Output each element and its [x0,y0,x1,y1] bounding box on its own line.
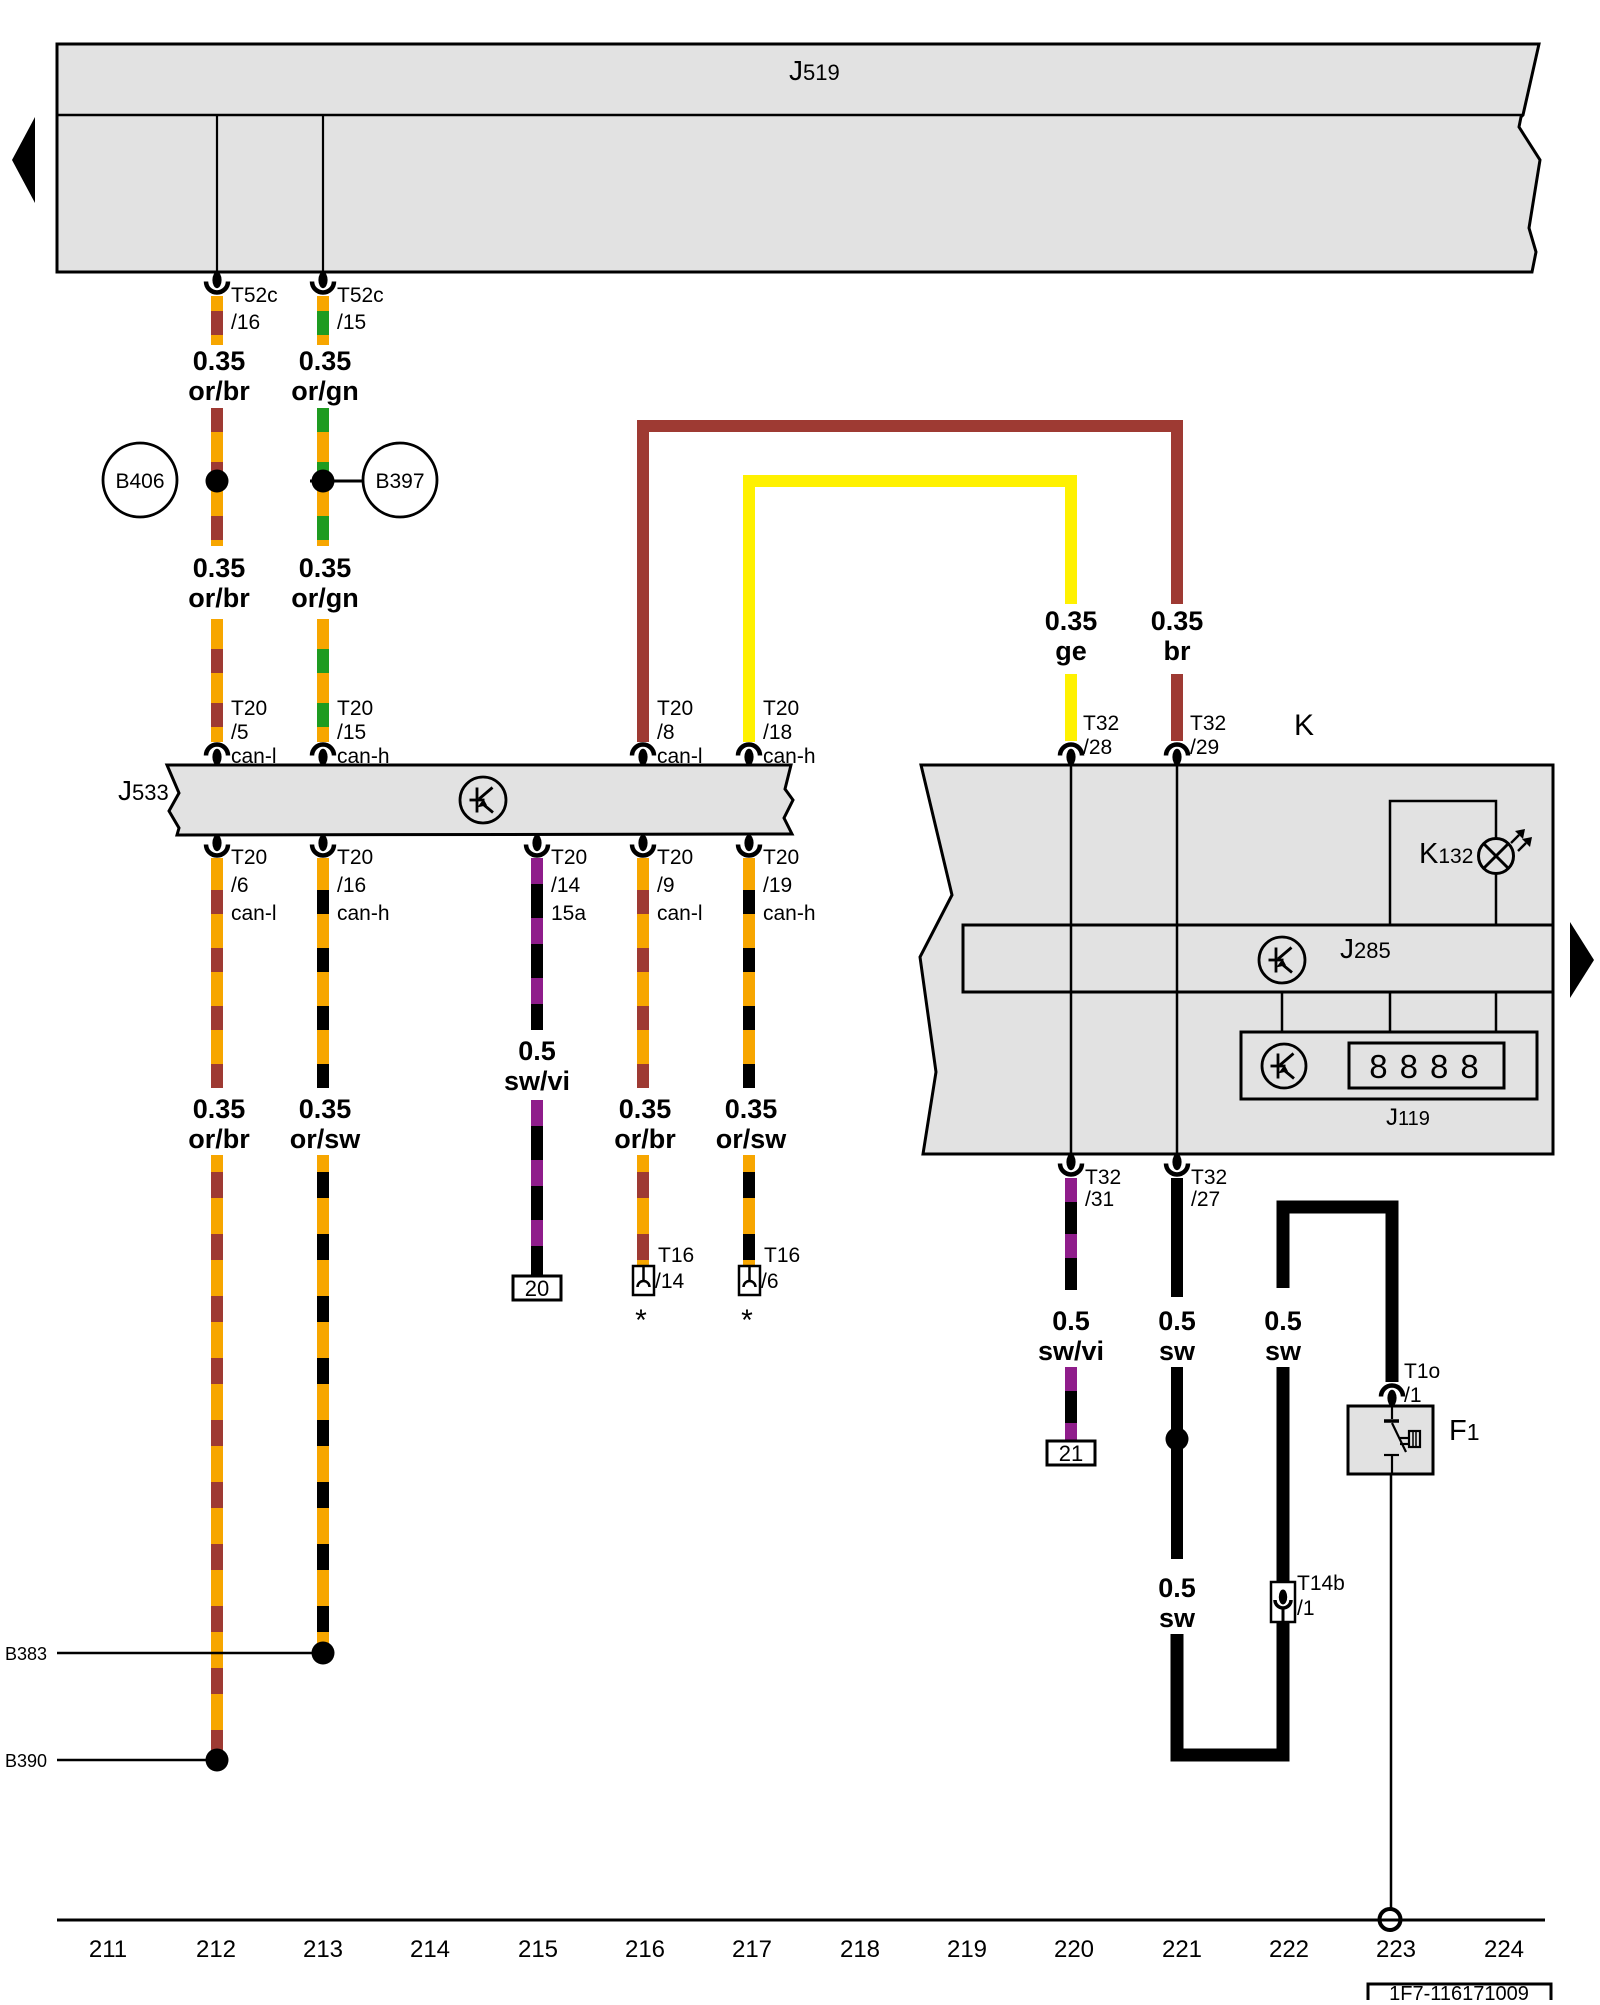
control unit J285 in dash panel insert [963,925,1553,992]
svg-text:sw: sw [1159,1603,1196,1633]
wire sw/vi below J533 track 215 [531,858,543,1030]
wire stub inside J519 track 213 [322,115,324,272]
svg-text:218: 218 [840,1936,880,1963]
svg-text:/29: /29 [1190,736,1219,759]
svg-text:or/br: or/br [188,583,250,613]
label 0.35 or/br lower track 212 [188,1094,250,1154]
svg-text:215: 215 [518,1936,558,1963]
wire sw/vi to ground 20 track 215 [531,1100,543,1276]
svg-text:T20: T20 [337,846,373,869]
svg-text:can-l: can-l [231,745,277,768]
svg-text:220: 220 [1054,1936,1094,1963]
connector T52c/15 at J519 [312,272,334,293]
svg-text:or/br: or/br [188,1124,250,1154]
svg-text:T52c: T52c [337,284,384,307]
label 0.5 sw track 222 [1264,1306,1302,1366]
wire or/sw long segment to B383 track 213 [317,1155,329,1653]
svg-text:/28: /28 [1083,736,1112,759]
svg-text:T16: T16 [658,1244,694,1267]
svg-text:can-h: can-h [763,902,816,925]
electronics symbol in J119 [1262,1044,1306,1088]
junction dot on sw wire track 221 [1166,1428,1189,1451]
svg-text:can-h: can-h [337,745,390,768]
svg-text:15a: 15a [551,902,586,925]
svg-text:sw: sw [1265,1336,1302,1366]
svg-text:0.35: 0.35 [1151,606,1204,636]
wire sw bottom U-link track 221-222 [1177,1621,1283,1755]
svg-text:20: 20 [525,1276,549,1301]
inline connector T16/6 [739,1266,760,1295]
continuation arrow left [12,117,35,203]
wire ge lower segment to T32/28 [1065,674,1077,741]
svg-text:214: 214 [410,1936,450,1963]
svg-text:0.5: 0.5 [1158,1573,1196,1603]
connector T20/8 at J533 top [632,745,654,766]
svg-text:can-l: can-l [231,902,277,925]
wire sw/vi to ground 21 track 220 [1065,1367,1077,1441]
K132 indicator lamp circuit wiring [1390,801,1496,925]
svg-text:/31: /31 [1085,1188,1114,1211]
internal line track 221 inside K [1176,765,1179,1154]
connector T20/6 at J533 bottom [206,835,228,856]
svg-text:213: 213 [303,1936,343,1963]
label 0.35 br [1151,606,1204,666]
tick line from B397 dot to circle [310,480,363,483]
svg-text:T20: T20 [337,697,373,720]
svg-text:B397: B397 [375,470,424,493]
svg-text:T32: T32 [1083,712,1119,735]
label 0.35 or/br upper left [188,346,250,406]
connection lines from J285 to J119 [1282,992,1496,1032]
ground designation 21 box [1047,1441,1095,1466]
svg-text:sw: sw [1159,1336,1196,1366]
label 0.35 or/sw lower track 217 [716,1094,788,1154]
svg-text:T16: T16 [764,1244,800,1267]
connector T32/31 at K bottom [1060,1154,1082,1175]
svg-text:F1: F1 [1449,1415,1480,1447]
svg-text:0.35: 0.35 [299,346,352,376]
svg-text:or/br: or/br [614,1124,676,1154]
svg-text:T32: T32 [1191,1166,1227,1189]
svg-text:/18: /18 [763,721,792,744]
label T20/5 can-l [231,697,277,768]
svg-text:0.5: 0.5 [1158,1306,1196,1336]
svg-text:/15: /15 [337,311,366,334]
splice lead B390 [5,1751,217,1771]
svg-text:/16: /16 [231,311,260,334]
label 0.5 sw track 221 [1158,1306,1196,1366]
label 0.35 or/br second left [188,553,250,613]
connector T32/28 at K top [1060,745,1082,766]
label 0.5 sw/vi track 220 [1038,1306,1104,1366]
svg-text:T1o: T1o [1404,1360,1440,1383]
svg-text:/19: /19 [763,874,792,897]
connector T32/27 at K bottom [1166,1154,1188,1175]
svg-text:/15: /15 [337,721,366,744]
internal line track 220 crossing J285 [1070,925,1073,992]
multifunction indicator J119 box [1241,1032,1537,1099]
connector T20/18 at J533 top [738,745,760,766]
label 0.35 or/br lower track 216 [614,1094,676,1154]
svg-text:T20: T20 [231,697,267,720]
label 0.5 sw/vi track 215 [504,1036,570,1096]
label /14 track 216 [655,1270,685,1293]
connector T1o/1 at F1 top [1381,1386,1403,1407]
svg-text:T20: T20 [231,846,267,869]
svg-text:J119: J119 [1386,1104,1430,1131]
svg-text:T20: T20 [657,846,693,869]
svg-text:/8: /8 [657,721,675,744]
svg-text:J533: J533 [118,775,169,806]
wire or/sw below J533 track 213 [317,858,329,1088]
connector T20/19 at J533 bottom [738,835,760,856]
wire from F1 to ground point track 223 [1390,1474,1393,1908]
label T20/6 can-l [231,846,277,925]
svg-text:or/br: or/br [188,376,250,406]
svg-text:*: * [741,1304,753,1337]
svg-text:216: 216 [625,1936,665,1963]
bottom rule line [57,1919,1545,1922]
label T52c/15 [337,284,384,334]
svg-text:222: 222 [1269,1936,1309,1963]
instrument cluster K box [920,765,1553,1154]
wire sw hook from K area to F1 track 222-223 [1283,1207,1392,1382]
junction dot B397 splice on or/gn wire [312,470,335,493]
LED arrows of K132 [1511,829,1532,851]
label 0.5 sw lower track 221 [1158,1573,1196,1633]
svg-text:can-h: can-h [337,902,390,925]
svg-text:0.35: 0.35 [619,1094,672,1124]
svg-text:1F7-116171009: 1F7-116171009 [1389,1983,1529,2000]
track numbers row [89,1936,1524,1963]
wire br lower segment to T32/29 [1171,674,1183,741]
wire sw below K upper track 221 [1171,1178,1183,1297]
svg-text:B390: B390 [5,1751,47,1771]
wire sw segment through T14b track 222 [1277,1367,1290,1582]
electronics symbol in J285 [1259,937,1305,983]
wire sw middle track 221 [1171,1367,1183,1559]
continuation arrow right [1570,922,1594,998]
svg-text:T20: T20 [551,846,587,869]
splice lead B383 [5,1644,323,1664]
label T20/19 can-h [763,846,816,925]
svg-text:T20: T20 [657,697,693,720]
svg-text:221: 221 [1162,1936,1202,1963]
label T20/14 15a [551,846,587,925]
svg-text:/14: /14 [551,874,581,897]
wire or/gn upper stub track 213 [317,296,329,345]
svg-text:can-l: can-l [657,745,703,768]
svg-text:K: K [1294,709,1314,742]
svg-text:T14b: T14b [1297,1572,1345,1595]
svg-text:or/gn: or/gn [291,583,359,613]
connector T20/14 at J533 bottom [526,835,548,856]
svg-text:0.35: 0.35 [1045,606,1098,636]
label 0.35 or/sw lower track 213 [290,1094,362,1154]
internal line track 220 inside K [1070,765,1073,1154]
svg-text:T32: T32 [1085,1166,1121,1189]
svg-text:/1: /1 [1297,1597,1315,1620]
svg-text:T20: T20 [763,846,799,869]
oil pressure switch F1 box [1348,1406,1433,1474]
svg-text:211: 211 [89,1936,127,1963]
wire or/br below J533 track 212 [211,858,223,1088]
label 0.35 or/gn second [291,553,359,613]
label T32/28 [1083,712,1119,759]
connector T20/9 at J533 bottom [632,835,654,856]
label T16 track 217 [764,1244,800,1267]
svg-text:/6: /6 [231,874,249,897]
gateway J533 box [167,765,793,835]
svg-text:224: 224 [1484,1936,1524,1963]
svg-text:can-l: can-l [657,902,703,925]
label T32/29 [1190,712,1226,759]
inline connector T16/14 [633,1266,654,1295]
wire or/br long segment to B390 track 212 [211,1155,223,1760]
svg-text:/14: /14 [655,1270,685,1293]
svg-text:0.35: 0.35 [299,553,352,583]
junction dot B383 [312,1642,335,1665]
svg-text:/6: /6 [761,1270,779,1293]
junction dot B406 splice on or/br wire [206,470,229,493]
connector T20/15 at J533 top [312,745,334,766]
internal line track 221 crossing J285 [1176,925,1179,992]
wire stub inside J519 track 212 [216,115,218,272]
svg-text:217: 217 [732,1936,772,1963]
wire or/br to T16/14 track 216 [637,1155,649,1266]
label 0.35 or/gn upper [291,346,359,406]
display 8888 of J119 [1349,1043,1504,1088]
label T20/9 can-l [657,846,703,925]
svg-text:J285: J285 [1340,933,1391,964]
svg-text:B406: B406 [115,470,164,493]
wire sw/vi below K track 220 [1065,1178,1077,1290]
svg-text:0.5: 0.5 [518,1036,556,1066]
label /6 track 217 [761,1270,779,1293]
svg-text:8888: 8888 [1369,1048,1490,1085]
wire or/gn lower segment to J533 track 213 [317,619,329,742]
wire or/sw to T16/6 track 217 [743,1155,755,1266]
connector T20/16 at J533 bottom [312,835,334,856]
svg-text:/9: /9 [657,874,675,897]
svg-text:T32: T32 [1190,712,1226,735]
connector T32/29 at K top [1166,745,1188,766]
wire or/gn mid segment track 213 [317,408,329,546]
label T52c/16 [231,284,278,334]
switch symbol inside F1 [1384,1406,1420,1474]
label T20/8 can-l [657,697,703,768]
svg-text:T20: T20 [763,697,799,720]
svg-text:/27: /27 [1191,1188,1220,1211]
svg-text:B383: B383 [5,1644,47,1664]
svg-text:or/gn: or/gn [291,376,359,406]
label T32/31 [1085,1166,1121,1211]
svg-text:219: 219 [947,1936,987,1963]
svg-text:0.35: 0.35 [193,346,246,376]
connector T52c/16 at J519 [206,272,228,293]
svg-text:0.5: 0.5 [1264,1306,1302,1336]
label T20/16 can-h [337,846,390,925]
inline connector T14b/1 [1271,1582,1295,1622]
svg-text:212: 212 [196,1936,236,1963]
svg-text:/1: /1 [1404,1384,1422,1407]
junction dot B390 [206,1749,229,1772]
label /1 of T14b [1297,1597,1315,1620]
wire or/br lower segment to J533 track 212 [211,619,223,742]
svg-text:sw/vi: sw/vi [1038,1336,1104,1366]
label T14b [1297,1572,1345,1595]
svg-text:0.35: 0.35 [299,1094,352,1124]
svg-text:T52c: T52c [231,284,278,307]
svg-text:ge: ge [1055,636,1087,666]
control unit J519 box [57,44,1540,272]
label T16 track 216 [658,1244,694,1267]
svg-text:or/sw: or/sw [290,1124,362,1154]
svg-text:0.35: 0.35 [193,1094,246,1124]
wire br (CAN-low) from J533 T20/8 up across to K T32/29 [643,426,1177,742]
wire or/br upper stub track 212 [211,296,223,345]
svg-text:0.5: 0.5 [1052,1306,1090,1336]
svg-text:223: 223 [1376,1936,1416,1963]
label T20/15 can-h [337,697,390,768]
wire or/br mid segment track 212 [211,408,223,546]
wire ge (CAN-high) from J533 T20/18 up across to K T32/28 [749,481,1071,742]
label T32/27 [1191,1166,1227,1211]
svg-text:21: 21 [1059,1441,1083,1466]
diagram number box [1368,1983,1551,2005]
indicator lamp K132 [1479,839,1514,874]
svg-text:*: * [635,1304,647,1337]
connector T20/5 at J533 top [206,745,228,766]
label T20/18 can-h [763,697,816,768]
svg-text:0.35: 0.35 [725,1094,778,1124]
wire or/br below J533 track 216 [637,858,649,1088]
svg-text:0.35: 0.35 [193,553,246,583]
ground point circle track 223 [1380,1909,1401,1930]
svg-text:br: br [1164,636,1191,666]
svg-text:J519: J519 [789,55,840,86]
svg-text:/5: /5 [231,721,249,744]
label /1 of T1o [1404,1384,1422,1407]
splice circle B397 [363,443,437,517]
splice circle B406 [103,443,177,517]
ground designation 20 box [513,1276,561,1301]
svg-text:sw/vi: sw/vi [504,1066,570,1096]
svg-text:or/sw: or/sw [716,1124,788,1154]
wire or/sw below J533 track 217 [743,858,755,1088]
svg-text:can-h: can-h [763,745,816,768]
label T1o [1404,1360,1440,1383]
svg-text:/16: /16 [337,874,366,897]
electronics symbol in J533 [460,777,506,823]
label 0.35 ge [1045,606,1098,666]
